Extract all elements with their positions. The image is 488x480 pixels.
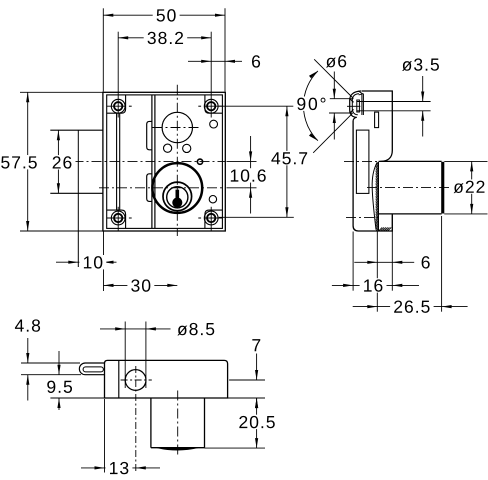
horizontal centerline through cam circle	[153, 127, 202, 129]
screw pad top-left	[107, 95, 126, 113]
dim 7 hole center to face	[229, 379, 265, 381]
dim ø22 cylinder	[444, 160, 487, 162]
hem slot bar	[357, 100, 360, 112]
dim 38.2	[117, 32, 119, 92]
upper tangent centerline across side body	[344, 160, 378, 162]
dim 90 degree countersink angle legs	[314, 59, 353, 98]
cylinder plug inner circle	[167, 187, 188, 208]
cylinder end cap (dark band)	[441, 162, 444, 214]
dim ø8.5 spindle hole	[124, 322, 126, 389]
horizontal centerline through cylinder	[99, 187, 225, 189]
dim 26 left (bolt height)	[57, 130, 59, 193]
side view body outline with rolled top hem	[362, 91, 393, 161]
bolt bar protruding (bottom view)	[79, 363, 104, 375]
break line (wavy) left of hatch	[372, 162, 377, 229]
lower spring tab on divider	[147, 174, 152, 202]
rolled hem outer curl	[350, 91, 361, 121]
cylinder horizontal body top/bottom	[379, 160, 442, 162]
small circle below-left of cam	[164, 144, 172, 152]
cylinder axis centerline	[367, 187, 486, 189]
lock cylinder bold circle	[152, 163, 202, 213]
tall slot on side body	[356, 130, 369, 193]
internal divider wall (double line)	[151, 95, 153, 229]
90 degree arc	[303, 71, 317, 141]
bottom view body outline	[105, 360, 228, 398]
cylinder end chamfer sliver	[158, 448, 198, 450]
upper spring tab on divider	[147, 121, 152, 149]
screw hole centerline crosses	[107, 105, 126, 107]
dim 20.5 cylinder length	[205, 447, 266, 449]
cylinder edge arc seen through hole	[140, 382, 146, 389]
section hatch band right edge	[377, 162, 379, 231]
screw hole top-right countersunk	[204, 99, 218, 113]
front plate inner outline	[107, 95, 223, 229]
bolt lightening slot	[83, 367, 103, 372]
extended bolt (front view, thrown left)	[50, 129, 103, 131]
dim 16 body depth	[352, 232, 354, 291]
dim 45.7 right (hole spacing)	[219, 105, 294, 107]
dim 13	[104, 399, 106, 473]
bolt slide bar (front view)	[116, 113, 118, 210]
lower screw hole centerline across side body	[346, 216, 379, 218]
cam follower large circle	[162, 112, 192, 142]
screw pad bottom-left	[107, 210, 126, 228]
hatching of sectioned flange	[376, 162, 392, 231]
screw hole bottom-right countersunk	[204, 211, 218, 225]
dim ø3.5 hole	[357, 101, 431, 103]
hem inner wall lines	[361, 94, 363, 116]
hem hole centerline	[347, 105, 360, 107]
dim 6 top-right	[188, 60, 242, 62]
horizontal centerline through pivot	[74, 160, 226, 162]
dim ø6 countersink	[329, 98, 353, 100]
dim 57.5 left	[20, 91, 103, 93]
screw hole top-left countersunk	[111, 99, 125, 113]
dim 50 top	[102, 8, 104, 91]
cylinder axis centerline (bottom view)	[177, 391, 179, 458]
centerline dashes beside screw holes	[129, 105, 132, 107]
small bold pivot circle	[197, 159, 202, 164]
screw pad bottom-right	[205, 210, 223, 228]
rolled hem inner curl	[352, 94, 359, 115]
small slot window on side body	[375, 112, 379, 128]
lock front view outer plate	[103, 92, 225, 231]
small circle below-right of cam	[183, 144, 191, 152]
dim 30 bottom	[104, 284, 178, 286]
hem sheared beak	[358, 91, 362, 95]
screw pad top-right	[205, 95, 223, 113]
spindle hole ø8.5	[125, 370, 146, 391]
vertical centerline through cylinder	[176, 85, 178, 236]
dim 10.6 right	[227, 160, 257, 162]
dim 6 cylinder flange	[376, 232, 378, 312]
dim 10 bottom (bolt throw)	[103, 232, 105, 292]
dim 4.8 bolt thickness	[21, 362, 80, 364]
spindle hole centerlines	[121, 379, 152, 381]
bottom view inner wall line	[118, 360, 120, 398]
dim 26.5 overall depth	[441, 216, 443, 312]
small circle lower right	[209, 196, 216, 203]
countersink notch edges	[350, 99, 354, 103]
cylinder plug outer circle	[163, 182, 192, 211]
screw hole bottom-left countersunk	[111, 211, 125, 225]
cylinder (bottom view)	[150, 398, 152, 448]
small circle right of cam	[210, 120, 218, 128]
keyhole (filled)	[172, 190, 182, 208]
dim 9.5	[50, 397, 104, 399]
